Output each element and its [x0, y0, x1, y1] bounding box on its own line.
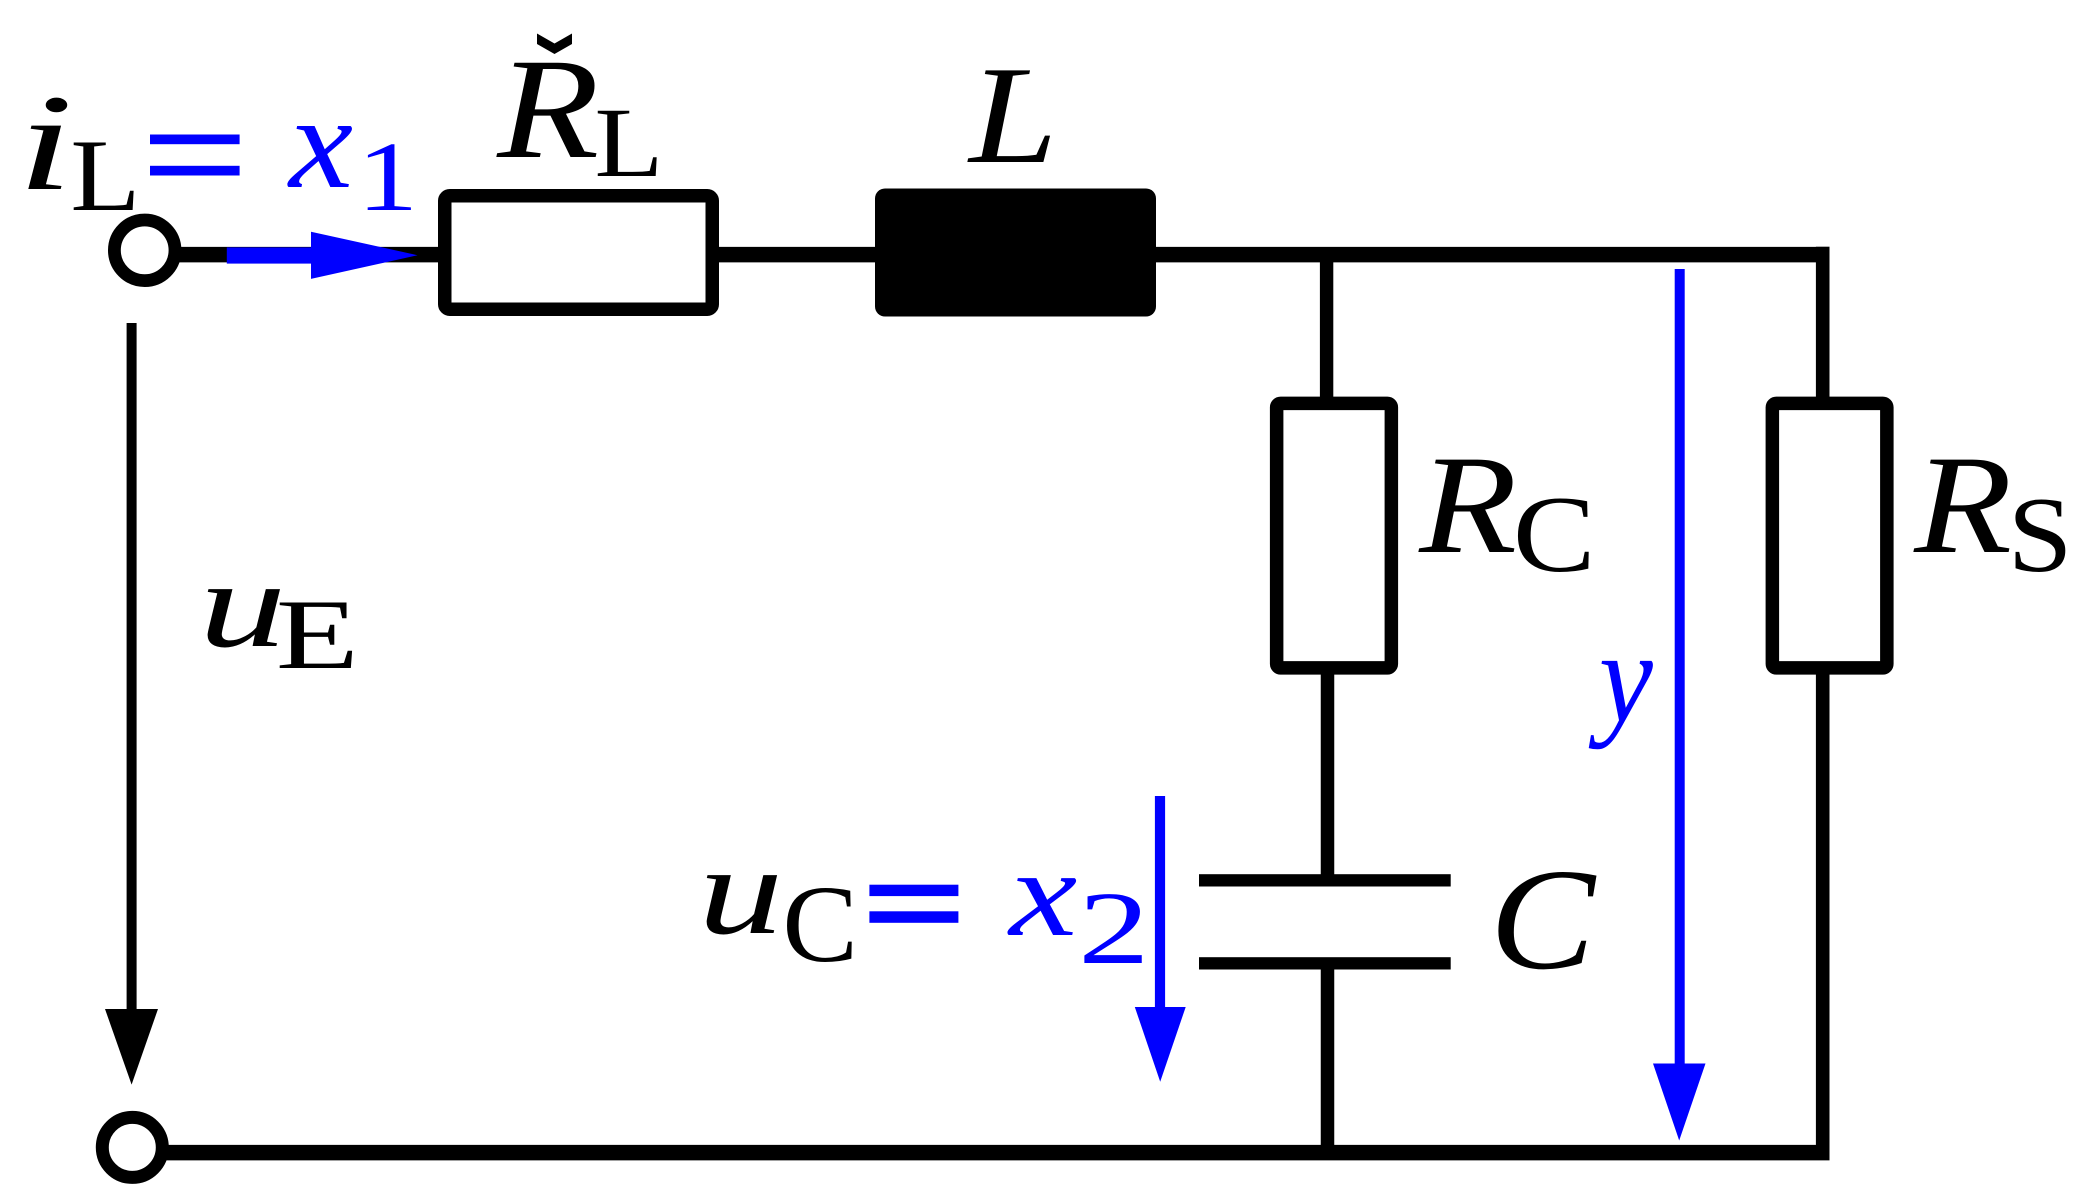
svg-text:R: R — [496, 29, 599, 189]
svg-text:C: C — [1490, 839, 1597, 1000]
svg-text:u: u — [698, 822, 783, 961]
svg-text:L: L — [70, 118, 140, 232]
svg-text:y: y — [1588, 605, 1653, 750]
svg-text:R: R — [1418, 427, 1517, 583]
svg-text:L: L — [595, 88, 664, 199]
svg-text:x: x — [1007, 825, 1077, 962]
svg-text:L: L — [967, 39, 1057, 193]
svg-text:i: i — [17, 66, 73, 220]
svg-text:u: u — [199, 536, 286, 673]
svg-text:E: E — [276, 579, 359, 690]
svg-text:R: R — [1913, 427, 2012, 583]
svg-text:C: C — [782, 863, 858, 985]
svg-text:x: x — [287, 68, 353, 216]
svg-text:S: S — [2008, 476, 2073, 595]
svg-text:2: 2 — [1078, 872, 1150, 987]
svg-text:C: C — [1513, 475, 1596, 595]
svg-text:1: 1 — [357, 122, 418, 233]
